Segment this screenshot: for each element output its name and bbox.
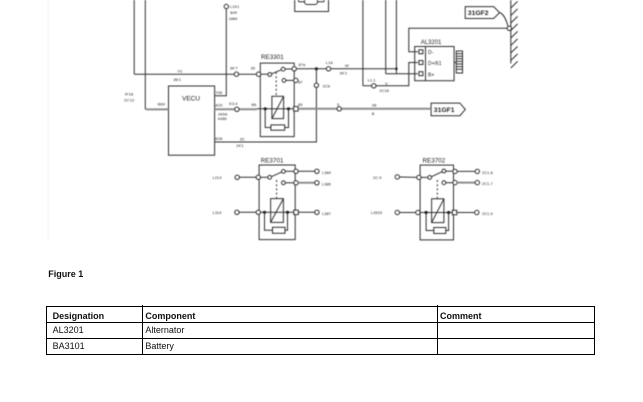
- RE3301 pin 30: [256, 72, 260, 76]
- junction coil left: [264, 107, 267, 110]
- svg-text:2C.9: 2C.9: [373, 175, 382, 180]
- table: [46, 306, 595, 355]
- RE3301 coil wire: [257, 108, 294, 110]
- connector L3515: [371, 210, 399, 215]
- RE3701 coil: [271, 199, 284, 223]
- svg-text:4486: 4486: [218, 116, 228, 121]
- svg-text:L314: L314: [213, 210, 223, 215]
- connector L1.1: [368, 78, 377, 88]
- wire: feed to main supply node (left): [133, 0, 135, 74]
- RE3701 pin 30: [256, 175, 260, 179]
- RE3701 pin 87: [294, 181, 298, 185]
- wire: L1A net from RE3301 87a: [296, 68, 396, 70]
- RE3702 armature link: [436, 180, 438, 199]
- RE3301 coil: [272, 96, 284, 118]
- svg-text:708: 708: [215, 90, 222, 95]
- relay RE3701: [259, 158, 295, 240]
- wire: feed down to L1.1 node: [362, 0, 364, 86]
- svg-text:87a: 87a: [299, 62, 306, 67]
- RE3301 pin 85: [294, 102, 304, 111]
- RE3702 pin 87a: [453, 169, 457, 173]
- connector J1 on 31GF1 wire: [337, 102, 341, 111]
- connector L384: [315, 169, 332, 175]
- wire: B+ feed: [386, 73, 418, 75]
- wire: 87a to L384: [298, 170, 315, 172]
- svg-text:B: B: [372, 111, 375, 116]
- svg-text:2C1.8: 2C1.8: [482, 170, 493, 175]
- RE3301 pin 87: [294, 78, 304, 84]
- svg-text:2C1.7: 2C1.7: [482, 181, 493, 186]
- junction coil right: [287, 107, 290, 110]
- svg-text:V1: V1: [178, 69, 184, 74]
- svg-text:3K'1: 3K'1: [340, 71, 349, 76]
- RE3701 pin 85: [294, 210, 299, 215]
- svg-text:85: 85: [298, 102, 303, 107]
- RE3301 switch: [261, 67, 292, 76]
- connector 2C1.8: [475, 169, 493, 175]
- svg-text:31GF1: 31GF1: [434, 107, 455, 114]
- wire: D- net to 31GF2 ground: [409, 28, 508, 52]
- svg-text:30: 30: [251, 66, 256, 71]
- wire: RE3301 85 to 31GF1 (highlighted): [298, 108, 431, 110]
- svg-text:3K'7: 3K'7: [230, 66, 239, 71]
- svg-text:B35: B35: [215, 136, 223, 141]
- wire: L314 to RE3701 coil: [239, 211, 256, 213]
- ECU U1 VECU: [169, 86, 215, 155]
- RE3701 switch: [261, 170, 294, 180]
- wire: L213 to RE3701 pin 30: [239, 176, 256, 178]
- RE3701 pin 87a: [294, 169, 298, 173]
- svg-text:2C6: 2C6: [323, 84, 331, 89]
- svg-text:B6: B6: [252, 102, 258, 107]
- svg-text:2C16: 2C16: [379, 88, 389, 93]
- wire: B69 feed (highlighted): [146, 108, 169, 110]
- junction coil left: [263, 211, 266, 214]
- svg-text:24'1: 24'1: [236, 143, 244, 148]
- svg-text:R'18: R'18: [125, 92, 134, 97]
- RE3702 coil wire: [420, 212, 452, 214]
- RE3301 pin 87a: [292, 62, 306, 71]
- svg-text:W: W: [345, 63, 349, 68]
- connector 2C1.7: [475, 180, 493, 186]
- svg-text:RE3701: RE3701: [261, 158, 284, 165]
- wire: 87 to 2C1.7 (highlighted): [457, 182, 475, 184]
- wire: A20 to RE3301 coil (highlighted): [215, 108, 257, 110]
- wire: L1.1 net to D+/61: [363, 63, 418, 86]
- RE3702 contact 87: [442, 181, 453, 185]
- RE3701 damping resistor: [265, 212, 288, 233]
- wire: main supply to RE3301 pin 30: [134, 73, 257, 75]
- connector L1K1: [224, 4, 240, 21]
- RE3301 armature link: [275, 72, 277, 96]
- svg-text:31GF2: 31GF2: [468, 10, 489, 17]
- junction coil right: [286, 211, 289, 214]
- RE3702 pin 30: [417, 175, 421, 179]
- wire: 2C.9 to RE3702 pin 30: [400, 176, 417, 178]
- wire: L3515 to RE3702 coil: [400, 212, 416, 214]
- svg-text:L387: L387: [322, 211, 332, 216]
- flag 31GF1: [431, 103, 465, 116]
- connector L387: [315, 210, 332, 216]
- wire: feed down to B+ row: [385, 0, 387, 74]
- RE3701 coil wire: [261, 211, 294, 213]
- svg-text:L385: L385: [322, 181, 332, 186]
- RE3701 contact 87: [282, 181, 294, 185]
- connector L385: [315, 181, 332, 187]
- svg-text:1B: 1B: [372, 103, 377, 108]
- svg-text:L384: L384: [322, 170, 332, 175]
- svg-text:L1A: L1A: [326, 60, 333, 65]
- svg-text:2B'1: 2B'1: [173, 77, 182, 82]
- wire: VECU pin 708 up-feed: [215, 9, 227, 96]
- RE3702 pin 86: [416, 210, 420, 214]
- connector L1A: [326, 60, 333, 71]
- svg-text:V: V: [385, 81, 388, 86]
- junction coil right: [447, 211, 450, 214]
- svg-text:B+: B+: [428, 73, 434, 79]
- svg-text:AL3201: AL3201: [421, 40, 442, 46]
- svg-text:2C'12: 2C'12: [124, 98, 135, 103]
- svg-text:L3515: L3515: [371, 210, 383, 215]
- relay RE3301: [260, 54, 294, 136]
- svg-text:A20: A20: [215, 102, 223, 107]
- svg-text:RE3702: RE3702: [423, 158, 446, 165]
- junction coil left: [425, 211, 428, 214]
- junction L1A/B+ riser: [395, 68, 398, 71]
- page column guide: [47, 0, 49, 240]
- wire: 87 to L385 (highlighted): [298, 182, 315, 184]
- flag 31GF2: [465, 7, 508, 27]
- svg-text:D-: D-: [428, 50, 434, 56]
- connector 3K'7 on main wire: [230, 66, 239, 77]
- svg-text:L1K1: L1K1: [230, 4, 240, 9]
- svg-text:L213: L213: [213, 175, 223, 180]
- RE3701 armature link: [276, 180, 278, 199]
- wire: 85 to L387: [298, 211, 314, 213]
- wire: 2C6 drop from L1A net to VECU bottom pin: [215, 69, 317, 142]
- connector 2C1.9: [475, 210, 494, 216]
- svg-text:1884: 1884: [229, 16, 239, 21]
- svg-text:3C: 3C: [240, 136, 245, 141]
- wire: feed to VECU B69: [144, 0, 146, 109]
- svg-text:L1.1: L1.1: [368, 78, 377, 83]
- svg-text:VECU: VECU: [182, 96, 200, 103]
- RE3301 contact 87: [282, 79, 294, 83]
- RE3701 pin 86: [256, 210, 260, 214]
- wire: 85 to 2C1.9: [457, 212, 475, 214]
- alternator stator winding: [454, 51, 462, 73]
- svg-text:87: 87: [298, 79, 303, 84]
- junction to 2C6 drop: [315, 67, 318, 70]
- RE3301 damping resistor: [265, 109, 288, 130]
- chassis ground (hatched): [507, 0, 518, 68]
- connector 2C.9: [373, 175, 399, 180]
- connector 2C6: [314, 83, 331, 88]
- RE3702 switch: [421, 169, 453, 179]
- connector E3.4: [229, 101, 239, 111]
- RE3702 pin 85: [452, 210, 457, 215]
- svg-text:RE3301: RE3301: [261, 54, 284, 61]
- svg-text:2C1.9: 2C1.9: [482, 211, 493, 216]
- svg-text:B/R: B/R: [230, 10, 237, 15]
- svg-text:E3.4: E3.4: [229, 101, 238, 106]
- svg-text:D+/61: D+/61: [428, 61, 442, 67]
- connector L314: [213, 210, 239, 215]
- figure caption: [48, 269, 83, 279]
- RE3702 damping resistor: [426, 213, 449, 234]
- RE3702 pin 87: [453, 180, 457, 184]
- relay RE3702: [420, 158, 453, 240]
- wire: feed down joining L1A net: [395, 0, 397, 74]
- svg-text:B69: B69: [158, 102, 166, 107]
- RE3702 coil: [432, 199, 444, 223]
- wire: 87a to 2C1.8: [457, 170, 475, 172]
- alternator AL3201: [415, 40, 454, 81]
- fuse FU (cut off at top): [295, 0, 329, 12]
- connector L213: [213, 175, 240, 180]
